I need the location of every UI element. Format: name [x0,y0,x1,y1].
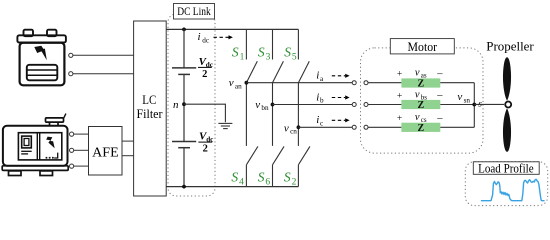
node top rail junction [182,28,186,32]
svg-text:v: v [415,89,420,100]
wire bottom DC rail [166,186,298,188]
label v_cn [284,122,297,135]
svg-text:+: + [397,114,402,124]
wire motor branch b left [368,104,401,106]
svg-text:2: 2 [292,177,297,187]
switch S3 [273,29,284,82]
motor terminal circle b [364,103,368,107]
arrow i_c [332,119,345,121]
wire leg a vertical [245,83,247,146]
svg-text:S: S [258,45,265,60]
capacitor C2 [172,141,196,143]
inverter output circle b [352,103,356,107]
generator icon [2,114,68,176]
wire phase c [298,126,352,128]
load profile dashed region [465,162,547,206]
battery terminal circle top [69,53,73,57]
Load Profile label box [473,162,539,175]
switch S5 [298,29,309,82]
svg-text:dc: dc [202,36,209,44]
svg-text:S: S [232,45,239,60]
AFE box [89,127,123,176]
impedance Z phase c [401,123,440,132]
propeller blade top [503,57,511,101]
label Vdc/2 upper [198,56,214,80]
label i_dc [198,31,210,44]
motor terminal circle a [364,81,368,85]
switch S4 [246,146,258,186]
svg-text:Load Profile: Load Profile [478,162,534,176]
svg-text:1: 1 [240,53,245,63]
DC link dashed region [168,14,215,196]
label + v_bs - [397,89,443,101]
svg-text:sn: sn [464,96,471,104]
svg-text:cn: cn [290,128,297,136]
wire AFE to LC filter (top) [122,140,134,142]
svg-text:–: – [436,90,443,101]
svg-text:Z: Z [417,100,424,111]
label + v_as - [397,68,443,80]
svg-text:2: 2 [203,144,208,155]
wire motor branch b right [440,104,474,106]
wire phase b [273,104,353,106]
svg-text:i: i [198,31,201,43]
capacitor C1 [172,67,196,69]
svg-text:v: v [284,122,289,134]
ground [218,123,232,128]
svg-text:i: i [316,70,319,82]
svg-text:Propeller: Propeller [486,39,534,53]
svg-text:DC Link: DC Link [177,4,211,18]
svg-text:Z: Z [417,123,424,134]
wire capacitor chain upper [183,29,185,68]
svg-text:Z: Z [417,79,424,90]
wire motor branch a left [368,82,401,84]
arrow i_a [332,75,345,77]
Motor label box [390,39,454,54]
svg-text:n: n [173,99,179,111]
label v_an [229,77,242,90]
svg-text:c: c [320,119,323,127]
node v_cn junction [297,125,301,129]
motor terminal circle c [364,125,368,129]
wire generator to AFE 2 [74,149,89,151]
switch S1 [246,29,257,82]
node n [182,102,186,106]
svg-text:v: v [457,91,462,103]
wire leg c vertical [297,83,299,146]
svg-text:b: b [320,97,324,105]
wire motor branch c right [440,126,474,128]
svg-text:v: v [229,77,234,89]
svg-text:bs: bs [421,93,428,101]
svg-text:+: + [397,70,402,80]
propeller blade bottom [503,108,511,152]
svg-text:an: an [235,82,242,90]
svg-text:S: S [258,169,265,184]
label + v_cs - [397,112,443,124]
generator terminal circle 1 [70,132,74,136]
wire generator to AFE 3 [74,165,89,167]
svg-text:4: 4 [239,177,244,187]
svg-text:Filter: Filter [137,106,164,121]
wire capacitor chain lower [183,148,185,187]
node v_bn junction [271,103,275,107]
wire phase a [246,82,352,84]
DC Link label box [174,4,215,20]
svg-text:i: i [316,114,319,126]
motor dashed region [361,48,484,153]
wire shaft to propeller [474,103,504,105]
svg-text:S: S [284,45,291,60]
svg-text:i: i [316,91,319,103]
label i_b [316,91,324,104]
wire capacitor chain middle [183,74,185,141]
svg-text:3: 3 [266,53,271,63]
label v_sn [457,91,470,104]
node v_an junction [245,81,249,85]
label i_a [316,70,324,83]
arrow i_b [332,97,345,99]
generator terminal circle 3 [70,164,74,168]
wire battery to LC filter (bottom) [73,73,134,75]
inverter output circle a [352,81,356,85]
wire top DC rail [166,28,298,30]
svg-text:–: – [436,68,443,79]
label v_bn [255,99,269,112]
wire generator to AFE 1 [74,133,89,135]
label Vdc/2 lower [198,131,214,155]
svg-text:+: + [397,91,402,101]
node bottom rail junction [182,185,186,189]
generator terminal circle 2 [70,148,74,152]
svg-text:v: v [415,68,420,79]
svg-text:S: S [231,169,238,184]
battery icon [17,30,66,86]
svg-text:S: S [284,169,291,184]
inverter output circle c [352,125,356,129]
svg-text:2: 2 [202,69,207,80]
wire star bus [473,83,475,128]
arrow i_dc [214,36,229,38]
svg-text:v: v [415,112,420,123]
svg-text:cs: cs [421,116,427,124]
battery terminal circle bottom [69,72,73,76]
svg-text:6: 6 [265,177,270,187]
svg-text:bn: bn [261,104,269,112]
load profile curve [482,179,545,200]
wire AFE to LC filter (bottom) [122,155,134,157]
impedance Z phase a [401,78,440,87]
switch S2 [298,146,310,186]
impedance Z phase b [401,100,440,109]
wire motor branch c left [368,126,401,128]
svg-text:AFE: AFE [92,145,119,160]
switch S6 [273,146,285,186]
LC Filter box [134,21,167,196]
propeller hub [505,102,511,108]
wire node n to ground [184,104,225,122]
svg-text:–: – [436,113,443,124]
label i_c [316,114,323,127]
svg-text:as: as [421,72,427,80]
wire battery to LC filter (top) [73,54,134,56]
wire leg b vertical [272,83,274,146]
svg-text:Motor: Motor [408,39,438,54]
wire motor branch a right [440,82,474,84]
node s junction [472,103,476,107]
svg-text:v: v [255,99,260,111]
svg-text:5: 5 [292,53,297,63]
